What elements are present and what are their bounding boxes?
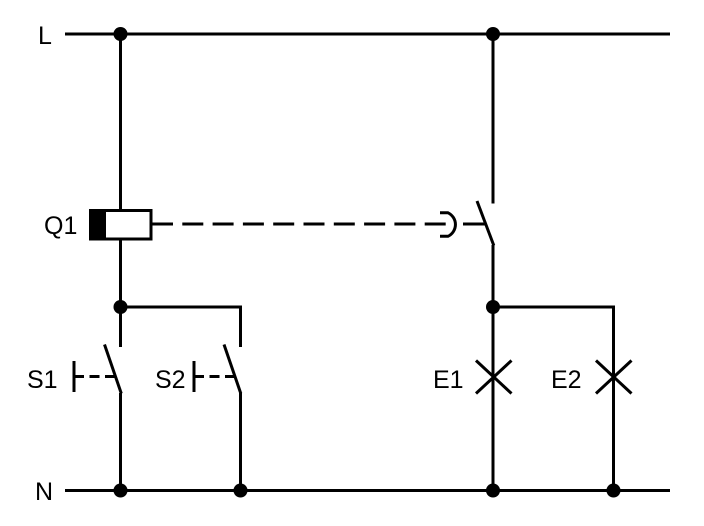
svg-text:E1: E1 [433,366,464,394]
wire S2 lower (to N) [239,393,242,491]
wire branch node to S2 [121,307,241,347]
svg-text:Q1: Q1 [44,212,77,240]
switch S1 actuator dashed link [74,375,115,378]
lamp E1 X symbol [476,361,512,394]
node right branch junction [486,300,500,314]
Q1 mechanical linkage dashed line [152,223,455,226]
switch S1 contact arm [105,345,122,394]
wire S1 upper stub [119,307,122,347]
node N-S2 junction [234,484,248,498]
wire right vertical middle (contact to node) [492,245,495,307]
wire L line [65,33,670,36]
wire N line [65,489,670,492]
Q1 linkage solid stub at contact [463,223,486,226]
node N-S1 junction [114,484,128,498]
switch S2 pushbutton bar [193,361,196,392]
switch S2 contact arm [224,345,241,394]
node L-right junction [486,27,500,41]
node L-left junction [114,27,128,41]
contactor Q1 coil outline [91,211,152,240]
wire left vertical lower (Q1 coil to node) [119,240,122,307]
Q1 linkage actuator arc [440,213,455,237]
svg-text:E2: E2 [551,366,582,394]
switch S1 pushbutton bar [73,361,76,392]
node N-E2 junction [607,484,621,498]
svg-text:L: L [38,22,52,50]
Q1 contact arm (normally open) [477,201,494,246]
node left branch junction [114,300,128,314]
node N-E1 junction [486,484,500,498]
lamp E2 X symbol [596,361,632,394]
wire E1 branch (node to N through lamp) [492,307,495,491]
svg-text:S2: S2 [155,366,186,394]
wire right vertical upper (L to Q1 contact) [492,34,495,204]
svg-text:S1: S1 [27,366,58,394]
wire E2 branch (to N through lamp) [612,307,615,491]
wire S1 lower (to N) [119,393,122,491]
wire left vertical upper (L to Q1 coil) [119,34,122,209]
wire branch node to E2 [493,307,614,347]
Q1 coil filled block [89,209,106,240]
svg-text:N: N [35,478,53,506]
switch S2 actuator dashed link [194,375,235,378]
